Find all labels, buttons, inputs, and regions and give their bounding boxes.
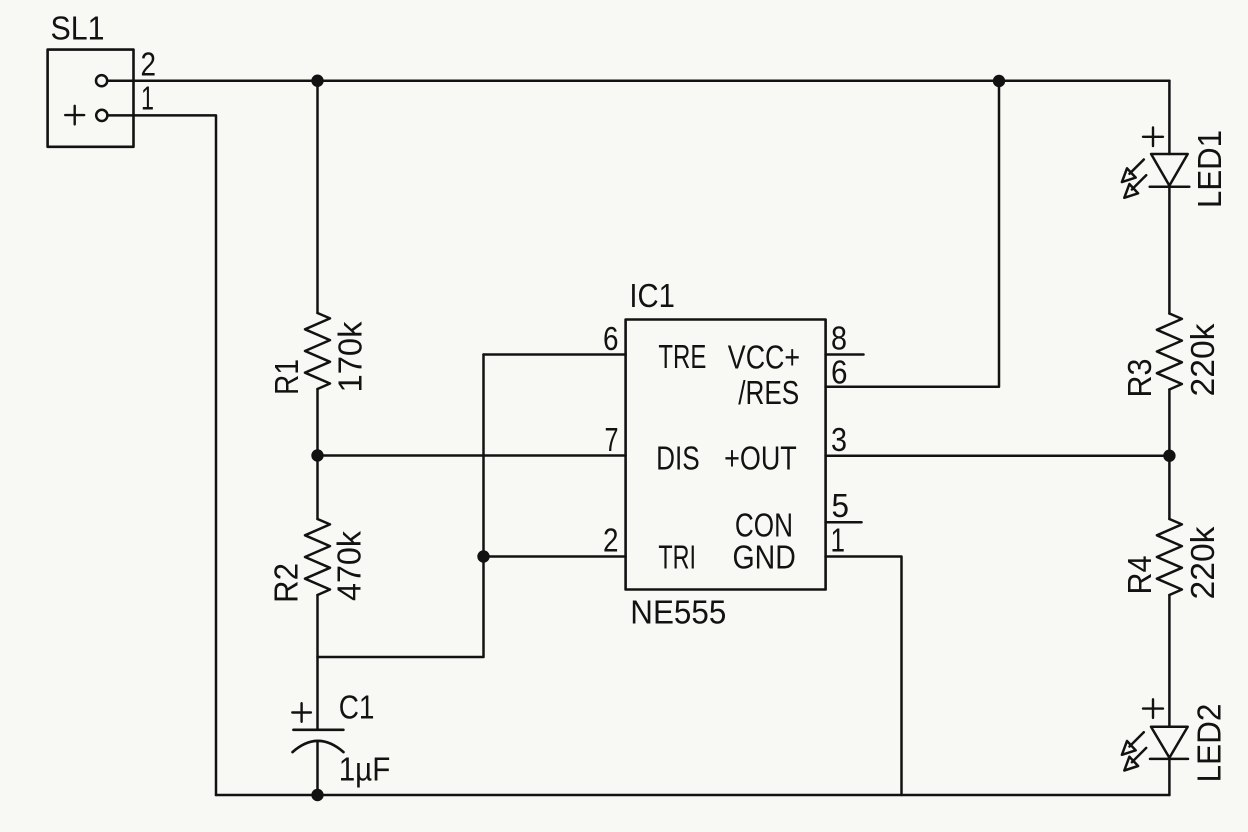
resistor R2: [305, 519, 330, 595]
svg-text:3: 3: [831, 421, 847, 458]
wire VCC top rail: [107, 79, 1169, 82]
svg-text:GND: GND: [733, 539, 796, 576]
svg-text:2: 2: [603, 522, 619, 559]
wire pin 8 stub: [826, 353, 864, 356]
resistor R4: [1157, 519, 1182, 595]
svg-text:/RES: /RES: [738, 374, 799, 411]
svg-text:220k: 220k: [1184, 323, 1221, 397]
svg-text:6: 6: [831, 354, 848, 391]
svg-text:NE555: NE555: [630, 593, 726, 630]
wire R3 to R4: [1168, 390, 1171, 520]
wire pin 1 GND to bottom rail: [826, 557, 902, 796]
svg-text:7: 7: [605, 421, 619, 458]
wire top rail to R1: [316, 81, 319, 313]
node junction top-left: [311, 75, 323, 87]
svg-text:R2: R2: [268, 563, 305, 603]
svg-text:R3: R3: [1121, 359, 1158, 398]
wire R2 bottom to TRE/TRI vertical: [318, 355, 484, 658]
svg-text:+OUT: +OUT: [724, 440, 797, 477]
wire DIS pin 7: [318, 454, 626, 457]
svg-text:R4: R4: [1121, 556, 1158, 595]
svg-text:R1: R1: [268, 359, 305, 395]
svg-text:VCC+: VCC+: [728, 338, 800, 375]
svg-text:8: 8: [831, 320, 847, 357]
svg-text:LED1: LED1: [1191, 130, 1228, 208]
wire R1 to R2: [316, 389, 319, 519]
svg-text:IC1: IC1: [629, 277, 675, 314]
svg-text:5: 5: [832, 487, 850, 524]
svg-text:TRI: TRI: [658, 539, 696, 576]
svg-text:1µF: 1µF: [339, 751, 391, 788]
svg-text:2: 2: [141, 46, 157, 83]
svg-text:DIS: DIS: [656, 440, 700, 477]
svg-text:6: 6: [603, 320, 619, 357]
node junction R1/R2/DIS: [311, 449, 323, 461]
svg-text:220k: 220k: [1184, 526, 1221, 600]
op IC1 NE555 box: [626, 320, 826, 590]
wire pin 6 /RES to top rail: [826, 81, 999, 387]
svg-text:SL1: SL1: [51, 10, 105, 47]
capacitor C1: [292, 703, 343, 795]
wire bottom rail: [216, 794, 1169, 797]
wire R2 to C1: [316, 595, 319, 730]
svg-text:1: 1: [831, 522, 846, 559]
connector SL1: [48, 50, 134, 147]
svg-text:470k: 470k: [331, 531, 368, 601]
node junction top-right: [993, 75, 1005, 87]
wire pin 3 OUT: [826, 454, 1170, 457]
svg-text:TRE: TRE: [658, 338, 706, 375]
node junction OUT/R3/R4: [1163, 450, 1175, 462]
node junction TRI: [477, 550, 489, 562]
wire pin 5 stub: [826, 521, 862, 524]
wire SL1 pin1 to left rail: [107, 115, 216, 795]
wire TRI pin 2: [484, 555, 626, 558]
resistor R1: [305, 313, 330, 389]
LED2: [1122, 595, 1188, 795]
wire TRE pin 6: [484, 353, 626, 356]
node junction C1/bottom rail: [311, 789, 323, 801]
svg-text:C1: C1: [339, 688, 375, 725]
svg-text:170k: 170k: [332, 321, 369, 392]
resistor R3: [1157, 314, 1182, 390]
LED1: [1122, 81, 1189, 314]
svg-text:1: 1: [141, 80, 154, 117]
svg-text:LED2: LED2: [1191, 704, 1228, 783]
